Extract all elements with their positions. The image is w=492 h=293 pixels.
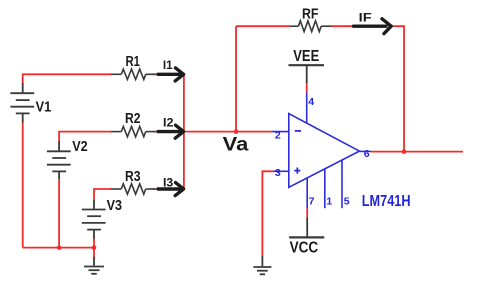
wire: V3 bottom to rail junction [93,238,95,257]
node: rail junction V2 [57,245,62,250]
wire: V2 bottom to rail [58,179,60,248]
battery V2 [47,141,71,179]
pin 6 stub [359,150,371,152]
op-amp U1 triangle [289,114,360,188]
svg-text:I3: I3 [163,175,174,189]
battery V3 [82,200,106,239]
wire: feedback vertical Va up [235,26,237,131]
pin 5 stub [341,160,343,208]
wire: V1 bottom down left column [22,122,24,248]
battery V1 [10,83,34,123]
resistor R3 [111,184,155,194]
wire: bottom rail [23,247,94,249]
wire: IF tip to top-right corner, down to output [391,26,404,151]
resistor R2 [111,126,155,136]
wire: VEE red segment to pin 4 [306,83,308,93]
wire: R1 lead to I1 arrow (red under arrow) [153,73,184,75]
svg-text:V2: V2 [72,138,88,155]
wire: V1 top to R1 [23,74,111,83]
svg-text:5: 5 [344,195,350,207]
pin 3 stub [274,170,289,172]
ground (under V3 rail junction) [84,257,104,274]
svg-text:R1: R1 [126,53,141,70]
arrow IF [354,19,392,34]
pin 1 stub [324,169,326,208]
svg-text:4: 4 [308,96,314,108]
wire: column joining rows 1-2-3 [183,74,185,189]
svg-text:V1: V1 [36,99,52,116]
pin 7 stub [306,178,308,208]
svg-text:I1: I1 [163,58,173,72]
svg-text:7: 7 [309,195,315,207]
op-amp minus sign [295,130,301,132]
svg-text:R3: R3 [125,168,141,185]
arrow I3 [158,183,184,196]
arrow I2 [158,125,184,138]
VCC supply bar [289,218,324,238]
wire: VCC red segment from pin 7 [306,208,308,218]
arrow I1 [158,68,184,81]
svg-text:LM741H: LM741H [362,193,411,210]
VEE supply bar [289,65,325,83]
pin 2 stub [272,131,289,133]
wire: V3 top to R3 [94,189,111,201]
wire: R2 lead to arrow [153,131,184,133]
svg-text:VCC: VCC [290,239,319,256]
svg-text:1: 1 [326,195,332,207]
svg-text:VEE: VEE [293,48,319,65]
node: output junction dot [402,149,407,154]
node: rail junction V3/ground [92,245,97,250]
svg-text:RF: RF [302,6,319,23]
svg-text:Va: Va [223,134,249,155]
wire: V2 top to R2 [59,132,111,142]
wire: pin3 to ground [262,171,273,256]
op-amp plus sign [294,168,300,174]
svg-text:IF: IF [359,11,372,25]
wire: R3 lead to arrow [153,188,184,190]
wire: top run to RF [236,25,290,27]
svg-text:3: 3 [275,167,281,179]
node Va junction dot [234,129,239,134]
resistor R1 [111,69,155,79]
svg-text:6: 6 [364,148,370,160]
svg-text:V3: V3 [107,197,122,214]
wire: row2 to op-amp pin 2 [184,131,272,133]
pin 4 stub [306,93,308,124]
resistor RF [290,21,331,32]
wire: RF to IF arrow [330,25,353,27]
svg-text:2: 2 [275,130,281,142]
svg-text:I2: I2 [163,115,174,129]
svg-text:R2: R2 [125,110,141,127]
wire: output run [371,151,463,153]
ground (op-amp pin 3) [253,256,271,274]
